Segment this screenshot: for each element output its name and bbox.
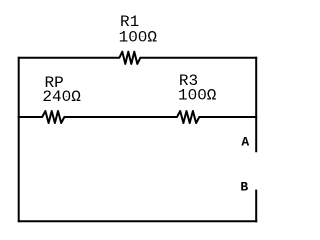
- resistor RP value label 240 ohm: [42, 88, 81, 106]
- svg-text:100Ω: 100Ω: [119, 28, 158, 46]
- wire top-right horizontal segment: [140, 57, 258, 59]
- wire right vertical side, lower segment from open terminal B: [255, 190, 257, 223]
- wire bottom horizontal side: [18, 220, 257, 222]
- wire top-left horizontal segment: [18, 57, 120, 59]
- resistor RP zigzag body: [42, 111, 64, 123]
- wire right vertical side, upper segment ending at open terminal A: [255, 57, 257, 153]
- svg-text:100Ω: 100Ω: [178, 86, 217, 104]
- resistor R1 value label 100 ohm: [119, 28, 158, 46]
- svg-text:B: B: [240, 180, 248, 195]
- wire left vertical side: [18, 57, 20, 223]
- resistor R3 zigzag body: [177, 111, 199, 123]
- wire middle-center horizontal segment: [64, 116, 178, 118]
- svg-text:240Ω: 240Ω: [42, 88, 81, 106]
- resistor R3 value label 100 ohm: [178, 86, 217, 104]
- wire middle-right horizontal segment to right side: [199, 116, 258, 118]
- resistor R1 zigzag body: [119, 52, 140, 64]
- svg-text:A: A: [241, 135, 249, 150]
- wire middle-left horizontal segment: [18, 116, 43, 118]
